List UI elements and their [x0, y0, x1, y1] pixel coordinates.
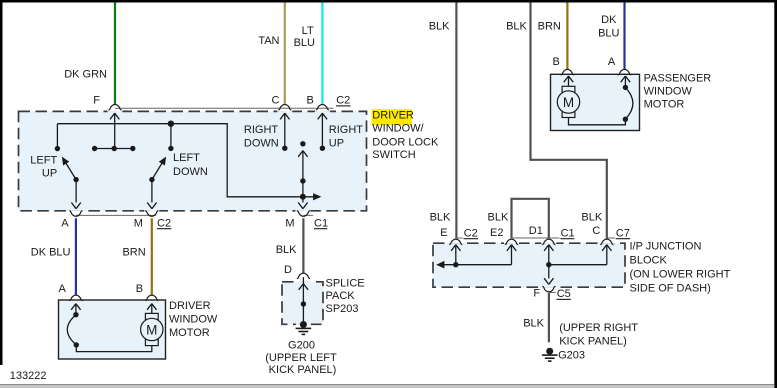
svg-text:BLK: BLK	[488, 211, 509, 223]
svg-text:B: B	[136, 283, 143, 295]
svg-text:BLU: BLU	[294, 37, 315, 49]
svg-text:(UPPER RIGHT: (UPPER RIGHT	[559, 322, 638, 334]
svg-text:D: D	[284, 264, 292, 276]
svg-text:DK: DK	[601, 14, 617, 26]
svg-text:LEFT: LEFT	[30, 154, 57, 166]
svg-text:BLK: BLK	[276, 244, 297, 256]
svg-text:(UPPER LEFT: (UPPER LEFT	[265, 352, 337, 364]
svg-text:UP: UP	[329, 137, 344, 149]
svg-text:G203: G203	[558, 349, 585, 361]
svg-text:M: M	[146, 322, 157, 337]
svg-text:A: A	[608, 56, 616, 68]
svg-text:D1: D1	[529, 225, 543, 237]
svg-text:DOWN: DOWN	[173, 166, 208, 178]
svg-text:WINDOW/: WINDOW/	[372, 123, 424, 135]
svg-text:C2: C2	[464, 227, 478, 239]
svg-text:KICK PANEL): KICK PANEL)	[559, 336, 627, 348]
svg-text:LEFT: LEFT	[173, 152, 200, 164]
svg-text:UP: UP	[42, 168, 57, 180]
svg-text:PACK: PACK	[326, 290, 356, 302]
svg-text:C2: C2	[336, 95, 350, 107]
svg-text:I/P JUNCTION: I/P JUNCTION	[630, 241, 702, 253]
svg-text:C2: C2	[157, 217, 171, 229]
svg-text:BRN: BRN	[122, 247, 145, 259]
svg-text:B: B	[553, 56, 560, 68]
svg-text:MOTOR: MOTOR	[644, 99, 685, 111]
svg-text:RIGHT: RIGHT	[244, 124, 279, 136]
svg-text:BLK: BLK	[430, 211, 451, 223]
svg-text:DK GRN: DK GRN	[64, 69, 107, 81]
svg-text:(ON LOWER RIGHT: (ON LOWER RIGHT	[630, 269, 731, 281]
svg-text:SWITCH: SWITCH	[372, 149, 415, 161]
svg-text:DRIVER: DRIVER	[372, 109, 414, 121]
svg-text:KICK PANEL): KICK PANEL)	[269, 364, 337, 376]
svg-text:TAN: TAN	[258, 35, 279, 47]
svg-text:E2: E2	[490, 227, 503, 239]
svg-text:C5: C5	[557, 288, 571, 300]
svg-text:133222: 133222	[10, 370, 47, 382]
svg-text:C: C	[592, 225, 600, 237]
svg-text:DRIVER: DRIVER	[169, 300, 211, 312]
svg-text:DK BLU: DK BLU	[31, 247, 71, 259]
svg-text:PASSENGER: PASSENGER	[644, 72, 712, 84]
svg-text:SPLICE: SPLICE	[326, 278, 365, 290]
svg-text:SP203: SP203	[326, 303, 359, 315]
svg-text:BLK: BLK	[429, 21, 450, 33]
svg-text:M: M	[563, 95, 574, 110]
svg-text:BLU: BLU	[598, 27, 619, 39]
svg-text:BLK: BLK	[506, 21, 527, 33]
svg-text:C: C	[272, 95, 280, 107]
svg-text:A: A	[59, 283, 67, 295]
svg-text:WINDOW: WINDOW	[644, 85, 693, 97]
svg-text:M: M	[285, 217, 294, 229]
svg-text:BRN: BRN	[538, 21, 561, 33]
svg-text:B: B	[307, 95, 314, 107]
svg-text:M: M	[134, 217, 143, 229]
svg-text:C1: C1	[314, 217, 328, 229]
svg-text:SIDE OF DASH): SIDE OF DASH)	[630, 283, 711, 295]
svg-text:BLK: BLK	[581, 211, 602, 223]
svg-text:F: F	[533, 288, 540, 300]
svg-text:DOOR LOCK: DOOR LOCK	[372, 136, 439, 148]
svg-text:RIGHT: RIGHT	[329, 124, 364, 136]
svg-text:C1: C1	[561, 227, 575, 239]
svg-text:MOTOR: MOTOR	[169, 327, 210, 339]
svg-text:E: E	[440, 227, 447, 239]
svg-text:WINDOW: WINDOW	[169, 314, 218, 326]
svg-text:A: A	[61, 217, 69, 229]
svg-text:BLK: BLK	[523, 317, 544, 329]
svg-text:G200: G200	[288, 340, 315, 352]
svg-text:LT: LT	[302, 25, 314, 37]
svg-text:F: F	[93, 95, 100, 107]
svg-text:C7: C7	[616, 227, 630, 239]
svg-text:BLOCK: BLOCK	[630, 255, 668, 267]
svg-text:DOWN: DOWN	[244, 137, 279, 149]
